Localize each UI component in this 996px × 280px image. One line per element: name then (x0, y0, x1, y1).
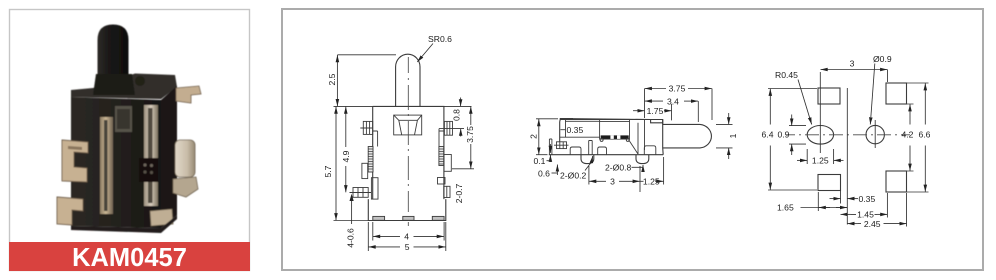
svg-text:5: 5 (405, 242, 410, 252)
svg-text:Ø0.9: Ø0.9 (873, 54, 892, 64)
dim 1 stem (716, 124, 733, 147)
pin bottom-right (hatched) (444, 186, 450, 197)
foot bump 1 (570, 147, 581, 155)
svg-text:KAM0457: KAM0457 (72, 244, 187, 272)
svg-text:0.8: 0.8 (451, 109, 461, 121)
switch photo (vector approximation) (57, 25, 201, 234)
svg-text:1.25: 1.25 (643, 176, 660, 186)
left photo panel frame (10, 10, 250, 271)
round pin right Ø0.8 (636, 155, 649, 164)
terminal left lower (57, 197, 83, 225)
horizontal centerline (786, 134, 910, 136)
dim 3 bottom (589, 166, 640, 192)
front slot left (100, 117, 113, 214)
pivot circles (600, 138, 603, 141)
terminal bottom right (150, 209, 173, 226)
svg-text:4-0.6: 4-0.6 (346, 228, 356, 248)
dim 4.9 (345, 107, 347, 147)
svg-text:0.9: 0.9 (778, 130, 790, 140)
slot hole left R0.45 (807, 126, 833, 145)
svg-text:2-Ø0.2: 2-Ø0.2 (560, 171, 586, 181)
dim 1.25 (view2) (663, 157, 665, 185)
foot bump 2 (598, 147, 607, 155)
vertical line through left hole (819, 72, 821, 153)
dim 0.35 (view3) (830, 198, 841, 200)
pin top-left (hatched) (360, 121, 377, 146)
right drawing panel frame (282, 9, 983, 270)
dim 3.75 (view1) (452, 168, 474, 170)
inner horizontal line (560, 121, 600, 137)
svg-text:3.4: 3.4 (667, 96, 679, 106)
front center plate (115, 106, 132, 132)
body outline (560, 119, 651, 142)
step column right (438, 178, 446, 185)
boss with contact dots (139, 158, 158, 182)
svg-text:0.6: 0.6 (538, 169, 550, 179)
hole right Ø0.9 (866, 125, 884, 143)
side contact strip right (439, 147, 444, 166)
svg-text:4: 4 (404, 232, 409, 242)
terminal right lower (173, 177, 198, 197)
svg-text:SR0.6: SR0.6 (428, 34, 452, 44)
dim 2.5 (334, 55, 397, 107)
central vertical line (846, 88, 848, 225)
dim 0.9 (789, 126, 806, 145)
chamfer diagonal (629, 140, 638, 154)
svg-text:6.4: 6.4 (762, 130, 774, 140)
keystone actuator window (394, 115, 422, 135)
bottom line (549, 154, 663, 156)
svg-text:3: 3 (610, 177, 615, 187)
left mini hatched pin (554, 142, 569, 149)
red model label KAM0457 (9, 242, 250, 271)
pad top-left (818, 88, 840, 104)
front slot right (144, 105, 158, 206)
dim 2 (536, 119, 558, 155)
dim 3 top (887, 70, 889, 83)
vertical tick through right hole (874, 120, 876, 148)
center block (600, 119, 630, 139)
bottom pads (373, 216, 385, 220)
svg-text:3.75: 3.75 (669, 84, 686, 94)
svg-text:2.45: 2.45 (864, 219, 881, 229)
dim 0.6 (556, 165, 558, 176)
side contact strip left (368, 147, 373, 173)
dim 1.45 (886, 193, 888, 218)
svg-text:5.7: 5.7 (323, 165, 333, 177)
svg-text:3: 3 (850, 59, 855, 69)
stem barrel (663, 120, 712, 155)
plunger collar (93, 74, 135, 95)
dim 0.1 (549, 144, 551, 153)
svg-text:0.35: 0.35 (567, 125, 584, 135)
round pin left Ø0.8 (581, 155, 594, 164)
svg-text:4.2: 4.2 (902, 130, 914, 140)
dim 1.75 (671, 104, 673, 120)
inner vertical wall (566, 120, 645, 155)
pad top-right (886, 83, 907, 104)
svg-text:6.6: 6.6 (919, 130, 931, 140)
dim 4-0.6 (351, 199, 353, 224)
pad bottom-right (886, 171, 907, 192)
pin bottom-left (hatched) (350, 188, 372, 198)
left thin pin 2-Ø0.2 (549, 139, 552, 155)
terminal top right (176, 86, 201, 103)
terminal right post (175, 140, 195, 177)
svg-text:2-Ø0.8: 2-Ø0.8 (605, 163, 631, 173)
pad edge extension (840, 191, 842, 204)
pad bottom-left (818, 175, 841, 191)
svg-text:2-0.7: 2-0.7 (454, 183, 464, 203)
svg-text:1.75: 1.75 (647, 106, 664, 116)
thin pin in left foot (589, 141, 593, 155)
black contact bar (601, 135, 629, 139)
svg-text:4.9: 4.9 (341, 150, 351, 162)
svg-text:1.25: 1.25 (812, 156, 829, 166)
terminal left bracket (62, 140, 88, 182)
dim 2.45 (906, 193, 908, 227)
dim 0.8 (444, 106, 472, 128)
svg-text:2.5: 2.5 (327, 73, 337, 85)
dim 3.4 (697, 101, 699, 122)
centerline (407, 57, 409, 226)
dim 1.65 (817, 192, 819, 211)
svg-text:0.35: 0.35 (859, 194, 876, 204)
body right face (161, 86, 177, 228)
body outline (368, 106, 446, 220)
dim 3.75 top (645, 89, 713, 121)
dim 6.6 (907, 83, 929, 192)
dim 1.25 (view3) (807, 149, 833, 164)
dim 5 (368, 222, 446, 251)
side tab right (444, 155, 451, 172)
svg-text:2: 2 (528, 134, 538, 139)
svg-text:3.75: 3.75 (465, 126, 475, 143)
foot bump 3 (644, 146, 656, 155)
stem outline (396, 54, 420, 106)
svg-text:1: 1 (728, 133, 738, 138)
svg-text:1.65: 1.65 (777, 203, 794, 213)
side tab left (362, 163, 368, 178)
dim 4 (373, 222, 444, 241)
dim 6.4 (768, 89, 817, 191)
body top face (71, 74, 177, 100)
body front face (71, 97, 161, 228)
plunger (98, 25, 129, 89)
pin top-right (hatched) (439, 121, 453, 146)
svg-text:0.1: 0.1 (534, 156, 546, 166)
base shadow (71, 215, 177, 233)
step column left (371, 178, 378, 199)
dim 5.7 (334, 220, 369, 222)
svg-text:R0.45: R0.45 (775, 70, 798, 80)
dim 4.2 (907, 104, 914, 171)
